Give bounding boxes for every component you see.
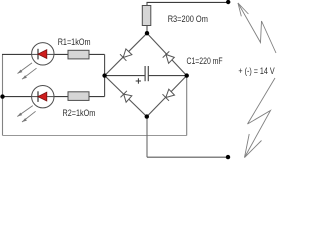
AC input arrow bottom (lightning)	[245, 78, 276, 158]
node junction left rail row2	[0, 94, 4, 98]
diode D4 bridge bottom-right	[163, 89, 175, 101]
resistor R3	[142, 6, 151, 26]
LED VD1	[32, 43, 54, 65]
wire capacitor left segment	[105, 75, 145, 77]
wire capacitor right segment	[148, 75, 186, 77]
LED VD2	[32, 86, 54, 108]
node AC top terminal	[226, 0, 230, 4]
node bridge bottom	[145, 114, 149, 118]
wire bottom return horizontal	[3, 135, 187, 137]
wire bottom node down	[146, 117, 148, 158]
node bridge top	[145, 31, 149, 35]
wire top node to R3	[146, 26, 148, 34]
resistor R2	[68, 92, 89, 101]
wire row1 horizontal	[2, 53, 105, 55]
svg-text:R1=1kOm: R1=1kOm	[58, 37, 91, 47]
LED VD2 emission arrows	[17, 106, 35, 122]
node AC bottom terminal	[226, 155, 230, 159]
wire bottom feed horizontal	[147, 156, 228, 158]
node bridge left	[102, 73, 106, 77]
wire bracket vertical	[104, 54, 106, 96]
wire bridge top-right diagonal	[147, 33, 187, 75]
capacitor C1 plus marker	[136, 78, 141, 83]
wire R3 top to corner	[146, 2, 148, 5]
svg-text:C1=220 mF: C1=220 mF	[187, 56, 223, 66]
AC input arrow top (lightning)	[238, 3, 276, 53]
svg-text:+ (-) = 14 V: + (-) = 14 V	[238, 66, 275, 76]
wire left rail vertical	[2, 54, 4, 135]
wire bridge bottom-right diagonal	[147, 76, 187, 117]
node bridge right	[185, 73, 189, 77]
resistor R1	[68, 50, 89, 59]
wire row2 horizontal	[2, 96, 105, 98]
LED VD1 emission arrows	[18, 63, 37, 79]
wire bridge top-left diagonal	[105, 33, 147, 75]
wire right rail vertical	[186, 76, 188, 136]
capacitor C1 plates	[145, 66, 148, 81]
wire top feed horizontal	[147, 1, 229, 3]
diode D3 bridge bottom-left	[121, 91, 132, 102]
svg-text:R3=200 Om: R3=200 Om	[168, 14, 208, 24]
wire bridge bottom-left diagonal	[105, 76, 147, 117]
diode D1 bridge top-left	[120, 49, 132, 61]
diode D2 bridge top-right	[163, 51, 175, 63]
svg-text:R2=1kOm: R2=1kOm	[63, 108, 96, 118]
